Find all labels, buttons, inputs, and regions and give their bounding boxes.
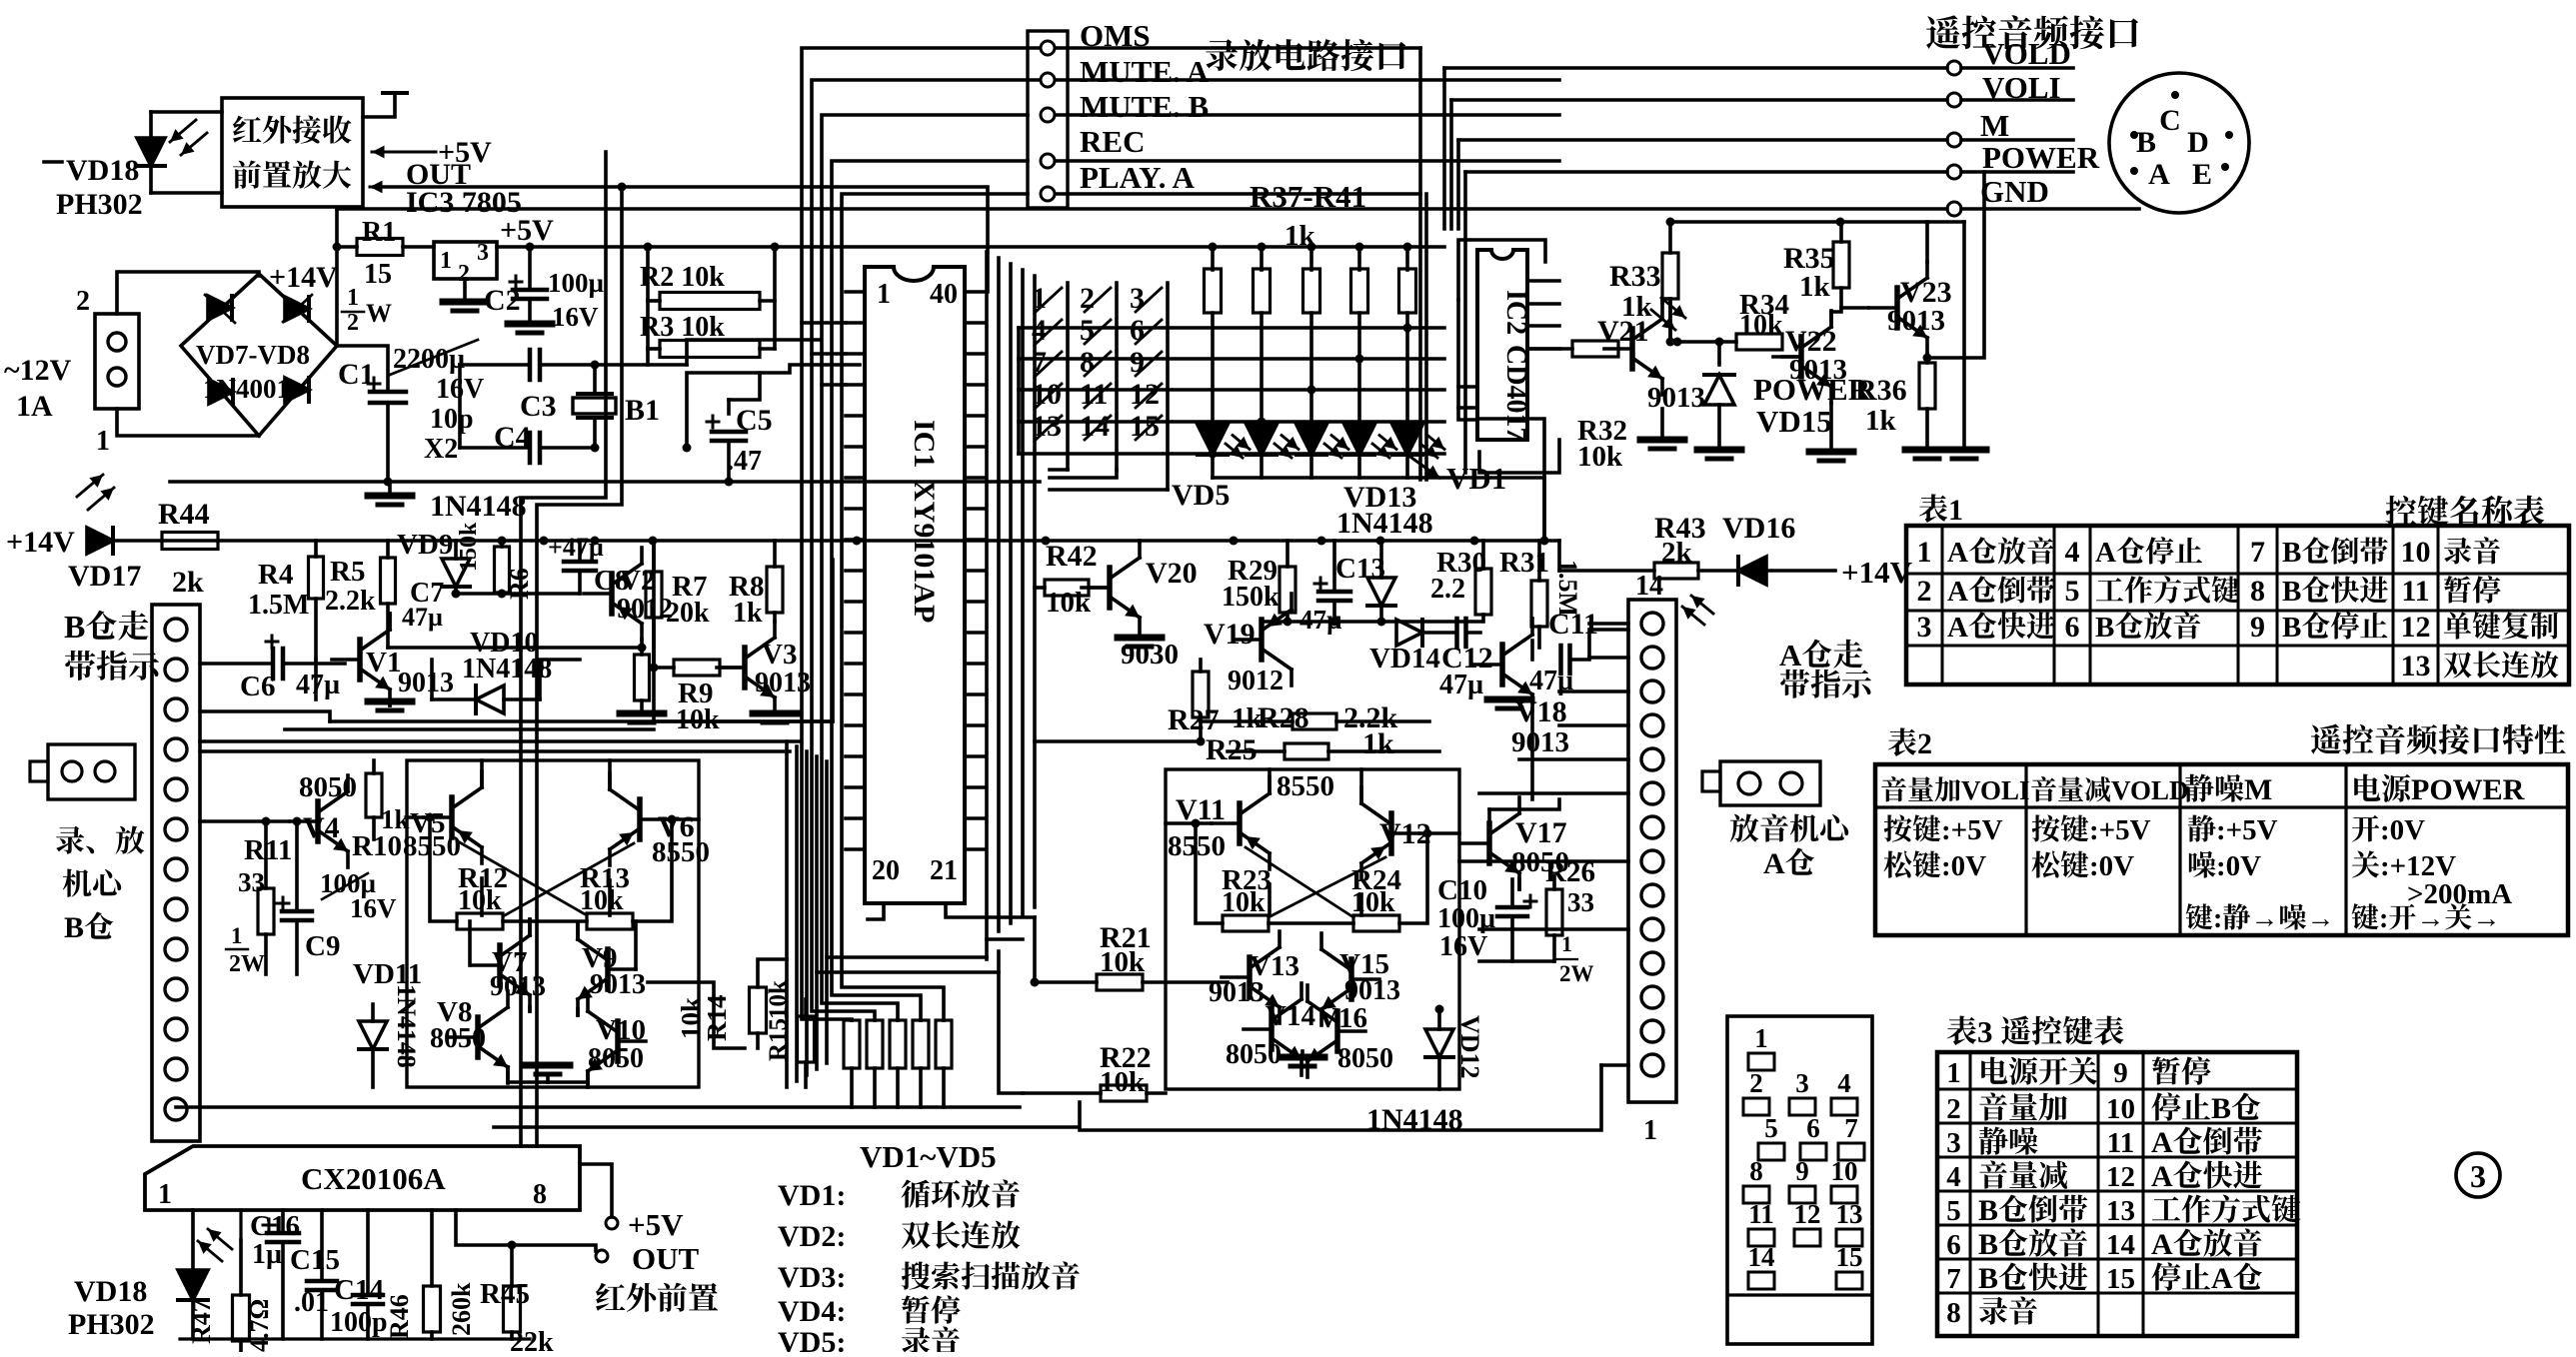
photodiode VD18 bottom [178,1270,208,1300]
svg-text:9013: 9013 [755,668,811,698]
svg-text:10k: 10k [1577,441,1623,473]
transistor V11 8550 [1237,803,1243,843]
svg-text:R5: R5 [330,556,365,588]
svg-text:音量加: 音量加 [1978,1092,2068,1125]
svg-text:9013: 9013 [1789,354,1847,386]
svg-text:14: 14 [1748,1242,1775,1272]
ground under V21 [1640,437,1684,444]
svg-text:OUT: OUT [632,1241,700,1276]
svg-text:V10: V10 [596,1014,646,1046]
svg-text:录放电路接口: 录放电路接口 [1205,39,1408,76]
svg-text:音量减: 音量减 [1978,1160,2068,1193]
resistor R13 10k [587,913,633,929]
svg-text:11: 11 [1748,1199,1774,1229]
svg-text:10k: 10k [1046,587,1092,619]
V20 collector to rail [1138,541,1142,542]
svg-text:R36: R36 [1855,374,1907,407]
IC3 7805 regulator box [434,242,497,279]
svg-text:VD18: VD18 [74,1275,147,1308]
svg-text:1N4001: 1N4001 [203,374,290,404]
svg-text:R47: R47 [187,1299,216,1344]
svg-text:10k: 10k [1739,310,1783,341]
svg-text:录音: 录音 [1978,1296,2038,1329]
wires record interface right [1056,46,1420,50]
svg-text:7: 7 [2250,536,2265,569]
svg-text:13: 13 [1836,1199,1863,1229]
resistor R32 10k [1572,341,1618,357]
capacitor C3 [528,350,533,380]
svg-text:B仓: B仓 [64,911,114,944]
wire connector to bridge top [117,272,259,314]
svg-text:GND: GND [1980,174,2049,209]
IC1 pin20/21 stubs [868,903,884,919]
diode VD14 47u [1396,620,1422,646]
svg-text:8050: 8050 [430,1023,486,1054]
five bus resistors [844,1020,860,1068]
svg-text:2: 2 [76,286,90,317]
svg-text:IC1: IC1 [908,420,941,468]
IC2 outer wire frame [1458,240,1545,300]
transistor V19 9012 [1259,620,1265,660]
svg-text:1k: 1k [733,598,763,629]
svg-text:+14V: +14V [1841,555,1913,590]
keyboard matrix grid [1019,326,1444,330]
transistor V7 9013 [497,945,503,985]
svg-text:5: 5 [1946,1195,1961,1227]
+5V arrow into box [372,151,436,154]
power connector J1 ~12V [95,314,139,409]
svg-text:1: 1 [1917,536,1932,569]
svg-text:A仓停止: A仓停止 [2095,537,2203,569]
table 3 grid [1937,1052,2297,1336]
connector 放音机心A仓 symbol [1720,761,1820,805]
svg-text:R10: R10 [352,830,402,862]
svg-text:100p: 100p [330,1307,388,1338]
svg-text:MUTE. B: MUTE. B [1080,89,1209,124]
svg-text:2: 2 [347,310,359,336]
svg-text:B仓放音: B仓放音 [1978,1228,2088,1261]
svg-text:20k: 20k [666,598,710,629]
resistor R34 10k [1736,334,1782,350]
svg-text:C14: C14 [334,1274,384,1306]
svg-text:+5V: +5V [628,1207,684,1242]
svg-text:1N4148: 1N4148 [1336,507,1433,540]
svg-text:放音机心: 放音机心 [1729,813,1853,846]
svg-text:.47: .47 [727,446,762,477]
svg-text:3: 3 [1917,611,1932,644]
resistor R33 1k [1662,253,1678,299]
long +14V rail y=541 [108,539,1559,543]
resistor R7 20k [646,572,662,618]
svg-text:VD3:: VD3: [778,1261,846,1294]
svg-text:C1: C1 [338,358,375,391]
svg-text:V16: V16 [1317,1002,1367,1034]
capacitor C4 [460,446,528,450]
svg-text:9013: 9013 [1647,382,1705,414]
table 2 grid [1875,764,2568,935]
svg-text:1k: 1k [1621,291,1653,323]
svg-text:14: 14 [1635,571,1663,602]
svg-text:VD15: VD15 [1756,404,1832,439]
resistor R47 4.7 [233,1295,250,1341]
svg-text:10k: 10k [580,885,624,916]
svg-text:1: 1 [1561,931,1572,956]
svg-text:VD18: VD18 [66,154,139,187]
svg-text:1: 1 [1754,1023,1768,1053]
svg-text:.01: .01 [294,1287,329,1318]
wire connector to bridge bottom [117,409,259,436]
svg-text:R42: R42 [1046,540,1098,573]
svg-text:R44: R44 [158,498,210,531]
svg-text:10k: 10k [1351,887,1395,918]
svg-text:1: 1 [158,1179,172,1210]
svg-text:10k: 10k [1222,887,1266,918]
svg-text:47µ: 47µ [296,670,340,700]
diode VD15 POWER [1717,342,1721,365]
svg-text:150k: 150k [1222,582,1280,613]
svg-text:16V: 16V [552,302,599,332]
svg-text:电源开关: 电源开关 [1978,1056,2098,1089]
svg-text:录、放: 录、放 [55,825,145,858]
svg-text:9013: 9013 [398,668,454,698]
capacitor C2 100u 16V [528,247,532,290]
svg-text:表2: 表2 [1887,727,1932,760]
svg-text:3: 3 [477,240,489,266]
svg-text:+14V: +14V [6,526,75,559]
svg-text:2.2: 2.2 [1430,574,1465,605]
V18 emitter ground [1487,696,1531,703]
wire M [1458,138,1947,142]
resistor R8 1k [767,567,783,613]
resistor R9 10k [674,660,720,676]
svg-text:工作方式键: 工作方式键 [2095,576,2240,608]
svg-text:8050: 8050 [588,1043,644,1074]
transistor V18 9013 [1499,645,1505,684]
svg-text:A仓: A仓 [1763,847,1815,880]
svg-text:B仓倒带: B仓倒带 [2282,537,2388,569]
transistor V5 8550 [449,797,455,837]
svg-text:10k: 10k [765,980,792,1019]
wire VOLD [1444,66,1947,70]
svg-text:VD5:: VD5: [778,1326,846,1352]
svg-text:遥控音频接口特性: 遥控音频接口特性 [2310,722,2566,758]
transistor V4 8050 [315,801,321,841]
svg-text:红外前置: 红外前置 [595,1281,719,1316]
svg-text:9030: 9030 [1121,639,1179,671]
svg-text:B: B [2136,126,2156,159]
svg-text:VD17: VD17 [68,560,141,593]
svg-text:8550: 8550 [1277,770,1334,802]
svg-text:1: 1 [877,279,891,310]
svg-text:VD1: VD1 [1446,461,1506,496]
svg-text:CD4017: CD4017 [1500,345,1531,441]
zener diode on V19 base [1367,578,1395,606]
svg-text:2W: 2W [1559,961,1594,986]
wire bridge right to R1 [335,209,339,346]
svg-text:VD7-VD8: VD7-VD8 [196,340,310,370]
svg-text:+5V: +5V [500,214,554,247]
svg-text:暂停: 暂停 [2151,1056,2211,1089]
oscillator to IC1 wires [687,365,860,448]
bottom ground rail CX [180,1337,530,1340]
svg-text:1µ: 1µ [252,1239,282,1270]
svg-text:A仓倒带: A仓倒带 [2151,1126,2263,1159]
svg-text:C9: C9 [305,930,340,962]
svg-text:12: 12 [2106,1161,2135,1193]
V23 collector to +14 rail [1925,222,1929,262]
svg-text:9: 9 [2250,611,2265,644]
svg-text:A仓倒带: A仓倒带 [1947,576,2055,608]
svg-text:机心: 机心 [62,868,126,901]
svg-text:8: 8 [1946,1297,1961,1329]
bottom rail [176,1105,1020,1109]
svg-text:2: 2 [1917,575,1932,608]
svg-text:R11: R11 [244,834,292,866]
svg-text:12: 12 [1794,1199,1821,1229]
capacitor C12 47u [1454,619,1459,647]
svg-text:录音: 录音 [2443,537,2501,569]
svg-text:9013: 9013 [590,969,646,1000]
svg-text:3: 3 [2470,1158,2486,1194]
svg-text:1: 1 [347,285,359,311]
V2 collector resistor and ground [640,640,644,655]
svg-text:A仓快进: A仓快进 [2151,1160,2263,1193]
svg-text:松键:0V: 松键:0V [1883,850,1986,882]
wire IC2 to R32 [1527,347,1572,351]
V20 emitter ground [1118,635,1162,642]
IC1 right pin stubs [965,321,984,325]
svg-text:A仓快进: A仓快进 [1947,612,2055,644]
capacitor C6 47u [200,662,273,666]
wire VD1 pointer [1479,419,1544,541]
svg-text:VD14: VD14 [1369,643,1440,675]
svg-text:8550: 8550 [403,830,461,862]
svg-text:2: 2 [1946,1093,1961,1125]
svg-text:9013: 9013 [1209,977,1265,1008]
svg-text:音量减VOLD: 音量减VOLD [2030,775,2188,805]
svg-text:13: 13 [2401,650,2431,682]
svg-text:暂停: 暂停 [2443,576,2501,608]
svg-text:VD5: VD5 [1172,479,1230,512]
capacitor C9 100u 16V [282,909,312,914]
svg-text:工作方式键: 工作方式键 [2151,1194,2301,1227]
transistor V21 9013 [1629,329,1635,369]
bundle verticals to IC2 area [1442,68,1446,229]
svg-text:MUTE. A: MUTE. A [1080,54,1210,89]
capacitor C1 2200u 16V [337,346,388,390]
svg-text:47µ: 47µ [402,603,443,632]
transistor V17 8050 [1486,823,1492,863]
table 1 grid [1906,526,2569,684]
diode VD12 [1425,1029,1453,1057]
wire POWER [1465,170,1947,174]
svg-text:4: 4 [1946,1161,1961,1193]
svg-text:V2: V2 [620,565,655,597]
svg-text:1: 1 [231,923,243,948]
svg-text:R2 10k: R2 10k [640,262,725,293]
bridge rectifier VD7-VD10 1N4001 [181,274,337,436]
svg-text:静:+5V: 静:+5V [2187,814,2278,846]
transistor V2 9012 [609,574,615,614]
svg-text:CX20106A: CX20106A [301,1161,446,1196]
svg-text:9: 9 [1795,1156,1809,1186]
svg-text:带指示: 带指示 [63,649,162,684]
svg-text:33: 33 [238,867,265,897]
wire OUT to IC1 pin40 [370,186,392,189]
transistor V14 8050 [1269,1009,1275,1049]
H-bridge cross coupling [458,841,587,915]
resistor R1 15 1/2W [337,245,357,249]
wire R33 node to R34 [1673,338,1682,347]
svg-text:260k: 260k [447,1282,476,1336]
svg-text:7: 7 [1844,1113,1858,1143]
transistor V8 8050 [475,1017,481,1057]
svg-text:9: 9 [2113,1057,2128,1089]
svg-text:VD1~VD5: VD1~VD5 [860,1139,997,1174]
V3 emitter ground [753,710,797,717]
svg-text:8: 8 [2250,575,2265,608]
svg-text:V20: V20 [1146,557,1198,590]
svg-text:5: 5 [1764,1113,1778,1143]
resistor R10 1k [366,773,382,817]
svg-text:VOLD: VOLD [1982,36,2071,71]
ground on rail [388,482,392,494]
svg-text:R4: R4 [258,559,293,591]
svg-text:D: D [2187,126,2209,159]
svg-text:1: 1 [96,426,110,457]
svg-text:B仓倒带: B仓倒带 [1978,1194,2088,1227]
transistor V13 9013 [1247,957,1253,997]
svg-text:XY9101AP: XY9101AP [908,480,941,623]
IC1 bottom-left bundle wires [785,741,789,1087]
oscillator rail top [460,363,528,367]
crystal B1 [591,361,600,370]
wires from right connector to circuits [1589,622,1628,626]
svg-text:搜索扫描放音: 搜索扫描放音 [901,1261,1081,1294]
V1 emitter ground [388,699,392,705]
wire LED to box [151,110,222,114]
svg-text:V1: V1 [366,647,401,678]
svg-text:1N4148: 1N4148 [430,490,527,523]
connector 录放电路接口 box [1028,31,1068,208]
svg-text:6: 6 [2065,611,2080,644]
wire V21 collector to R33 [1660,299,1664,303]
svg-text:表3 遥控键表: 表3 遥控键表 [1946,1014,2124,1049]
svg-text:2: 2 [1749,1068,1763,1098]
svg-text:VD1:: VD1: [778,1179,846,1212]
svg-text:电源POWER: 电源POWER [2351,773,2525,806]
wire V17 collector [1517,879,1521,889]
svg-text:键:静→噪→: 键:静→噪→ [2185,903,2334,934]
wire VOLI [1451,98,1947,102]
IC2 right pin stubs [1527,279,1559,283]
svg-text:W: W [366,299,392,328]
svg-text:C10: C10 [1437,874,1487,906]
svg-text:1k: 1k [1799,271,1831,303]
svg-text:A仓放音: A仓放音 [1947,537,2055,569]
svg-text:13: 13 [2106,1195,2135,1227]
transistor V15 9013 [1348,959,1354,999]
svg-text:前置放大: 前置放大 [232,160,352,193]
svg-text:循环放音: 循环放音 [901,1179,1021,1212]
svg-text:按键:+5V: 按键:+5V [2031,814,2151,846]
svg-text:B仓停止: B仓停止 [2282,612,2388,644]
transistor V1 9013 [357,640,363,679]
svg-text:单键复制: 单键复制 [2443,612,2559,644]
connector 录放机心B仓 symbol [48,744,135,799]
IC2 left pin stubs [1458,385,1477,389]
svg-text:VD12: VD12 [1455,1015,1484,1079]
svg-text:红外接收: 红外接收 [232,115,352,148]
svg-text:VOLI: VOLI [1982,70,2061,105]
svg-text:双长连放: 双长连放 [901,1220,1021,1253]
wire rail stub R4 R5 VD9 R6 C8 [314,660,318,699]
+14V top rail right side [1670,220,1964,224]
svg-text:R45: R45 [480,1278,530,1310]
svg-text:5: 5 [2065,575,2080,608]
box around V3 circuit [654,540,833,721]
svg-text:松键:0V: 松键:0V [2031,850,2134,882]
right bridge center ground [1281,1054,1324,1061]
svg-text:16V: 16V [1439,931,1487,962]
svg-text:V3: V3 [762,639,797,671]
svg-text:3: 3 [1946,1127,1961,1159]
svg-text:静噪M: 静噪M [2184,773,2272,806]
svg-text:15: 15 [1836,1242,1863,1272]
common rail y=482 [170,480,1040,484]
svg-text:1: 1 [440,248,452,274]
LED bottom bus [1213,478,1544,541]
svg-text:PH302: PH302 [56,188,143,221]
transistor V20 9030 [1107,568,1113,608]
capacitor C16 1u [267,1231,299,1236]
svg-text:C4: C4 [494,421,531,454]
wire V2 base node [456,592,580,596]
svg-text:R15: R15 [765,1018,792,1061]
resistor R12 10k [457,913,503,929]
transistor V12 8550 [1388,813,1394,853]
svg-text:E: E [2192,158,2212,191]
right connector box (14 circles) [1628,600,1676,1102]
svg-text:11: 11 [1080,378,1108,411]
svg-text:14: 14 [2106,1229,2135,1261]
svg-text:键:开→关→: 键:开→关→ [2351,903,2500,934]
svg-text:音量加VOLI: 音量加VOLI [1880,775,2029,805]
svg-text:6: 6 [1946,1229,1961,1261]
svg-text:C2: C2 [484,284,521,317]
svg-text:7: 7 [1946,1263,1961,1295]
H-bridge center ground [508,1080,548,1084]
photodiode VD18 (top-left) [44,160,62,164]
svg-text:停止A仓: 停止A仓 [2151,1262,2263,1295]
svg-text:11: 11 [2401,575,2429,608]
svg-text:9012: 9012 [1228,666,1284,696]
svg-text:B仓快进: B仓快进 [2282,576,2388,608]
svg-text:开:0V: 开:0V [2351,814,2425,846]
svg-text:150k: 150k [456,522,482,572]
svg-text:2k: 2k [172,566,204,599]
svg-text:REC: REC [1080,124,1145,159]
resistors R37-R41 [1209,243,1218,252]
oscillator left vertical [458,365,462,448]
svg-text:10k: 10k [458,885,502,916]
svg-text:录音: 录音 [901,1326,961,1352]
svg-text:21: 21 [930,855,958,886]
svg-text:噪:0V: 噪:0V [2187,850,2261,882]
svg-text:1k: 1k [1865,405,1897,437]
transistor V3 9013 [742,648,748,687]
svg-text:16V: 16V [350,893,397,923]
